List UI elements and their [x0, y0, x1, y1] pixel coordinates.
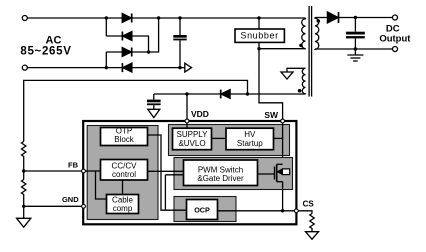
supply panel [169, 125, 290, 156]
transformer aux winding [302, 68, 305, 94]
svg-text:PWM Switch: PWM Switch [198, 165, 243, 174]
node primary bottom junction [257, 47, 260, 50]
svg-text:&UVLO: &UVLO [178, 139, 205, 148]
wire VDD internal [186, 122, 188, 128]
node CS junction [281, 209, 284, 212]
resistor R2 [22, 180, 26, 196]
phase dot primary [299, 44, 303, 48]
node output cap top [354, 16, 357, 19]
wire FB branch to cable comp [96, 171, 107, 199]
ground arrow aux top [281, 72, 293, 79]
resistor R1 [22, 142, 26, 158]
diode D4 [122, 63, 131, 72]
label DC Output [379, 24, 411, 45]
wire FB [24, 170, 82, 172]
wire snubber to SW [259, 42, 283, 120]
wire output top [339, 17, 393, 19]
diode D3 [122, 48, 132, 57]
wire HV to SW line [274, 137, 283, 139]
SUPPLY UVLO block [173, 128, 212, 150]
svg-text:GND: GND [62, 195, 79, 204]
svg-text:Startup: Startup [237, 139, 263, 148]
earth ground output [347, 49, 363, 61]
capacitor C2 output [346, 18, 365, 50]
wire OCP to CS pin [218, 210, 295, 212]
node bridge top-left [105, 16, 108, 19]
CC/CV control block [101, 160, 148, 181]
off-page arrow primary return [185, 63, 192, 72]
wire aux sense loop [24, 80, 248, 141]
svg-text:VDD: VDD [191, 109, 209, 119]
wire VDD rail [154, 93, 221, 95]
svg-text:FB: FB [68, 161, 79, 170]
snubber box [235, 29, 284, 42]
node VDD tee [185, 92, 188, 95]
pin CS [294, 209, 298, 213]
wire CS external [298, 211, 312, 214]
wire source to CS [282, 182, 284, 211]
analog section panel [87, 126, 158, 220]
svg-text:SW: SW [264, 110, 279, 120]
wire bridge left upper [105, 18, 107, 36]
wire snubber top stub [258, 18, 260, 29]
wire OTP routing [148, 135, 187, 210]
node bulk cap bottom [178, 66, 181, 69]
svg-text:CS: CS [303, 199, 315, 208]
node bridge bottom-left [105, 66, 108, 69]
wire VDD pin [186, 94, 188, 120]
ocp panel [174, 197, 236, 222]
diode D2 [122, 32, 131, 41]
node bridge top-right [157, 16, 160, 19]
svg-text:HV: HV [244, 130, 256, 139]
wire gate [258, 173, 275, 175]
wire aux top [287, 68, 306, 72]
svg-text:85~265V: 85~265V [20, 45, 71, 57]
svg-text:&Gate Driver: &Gate Driver [197, 174, 244, 183]
svg-text:Block: Block [114, 135, 135, 144]
wire bridge row3 [106, 18, 158, 52]
wire secondary top [315, 17, 328, 19]
wire primary bottom [259, 48, 306, 50]
ground arrow VDD cap [148, 109, 160, 117]
wire CC/CV to PWM [148, 170, 184, 172]
wire CC/CV to cable comp [122, 180, 124, 195]
node GND divider [22, 205, 25, 208]
node FB divider [22, 169, 25, 172]
wire supply to HV [212, 137, 227, 139]
transformer secondary winding [315, 18, 319, 50]
pin GND [82, 204, 86, 208]
capacitor C1 bulk [173, 18, 186, 68]
wire output bottom [315, 48, 393, 50]
wire GND [24, 205, 82, 207]
AC input terminal L [22, 16, 27, 21]
pwm panel [174, 158, 293, 190]
node output cap bottom [354, 47, 357, 50]
diode D1 [122, 14, 132, 23]
phase dot aux [298, 89, 302, 93]
AC input terminal N [22, 65, 27, 70]
node aux sense junction [246, 92, 249, 95]
resistor R3 [310, 214, 314, 232]
wire AC bottom rail [27, 67, 184, 69]
wire divider mid [23, 157, 25, 180]
OCP block [187, 200, 218, 220]
svg-text:OCP: OCP [194, 206, 210, 215]
transformer primary winding [302, 18, 306, 49]
wire SW internal [282, 122, 284, 164]
capacitor C3 VDD [147, 94, 161, 109]
PWM block [184, 160, 258, 186]
diode D6 aux rectifier [221, 90, 230, 99]
wire OTP branch to PWM [165, 175, 183, 210]
DC output terminal - [393, 47, 398, 52]
wire divider bottom [23, 195, 25, 218]
wire AC top rail [27, 17, 305, 19]
svg-text:SUPPLY: SUPPLY [177, 130, 209, 139]
DC output terminal + [393, 15, 398, 20]
transformer core [309, 6, 312, 97]
pin SW [281, 119, 285, 123]
wire bridge row2 [106, 36, 148, 52]
svg-text:control: control [112, 170, 136, 179]
IC U1 outline [83, 121, 296, 224]
wire FB internal [85, 170, 100, 172]
svg-text:Snubber: Snubber [240, 31, 278, 41]
diode D5 output rectifier [327, 12, 338, 23]
node bulk cap top [178, 16, 181, 19]
label AC 85~265V [20, 34, 71, 57]
pin VDD [185, 119, 189, 123]
ground arrow divider [17, 218, 31, 227]
ground arrow CS [306, 232, 319, 240]
svg-text:Output: Output [379, 33, 411, 44]
wire aux bottom [230, 93, 305, 95]
cable comp block [107, 195, 139, 214]
HV startup block [226, 128, 274, 150]
node snubber top [257, 16, 260, 19]
svg-text:comp: comp [113, 204, 133, 213]
wire bridge left lower [105, 52, 107, 68]
node bridge row3 junction [147, 50, 150, 53]
OTP block [101, 127, 148, 146]
MOSFET Q1 [275, 164, 290, 181]
phase dot secondary [317, 19, 321, 23]
pin FB [82, 169, 86, 173]
